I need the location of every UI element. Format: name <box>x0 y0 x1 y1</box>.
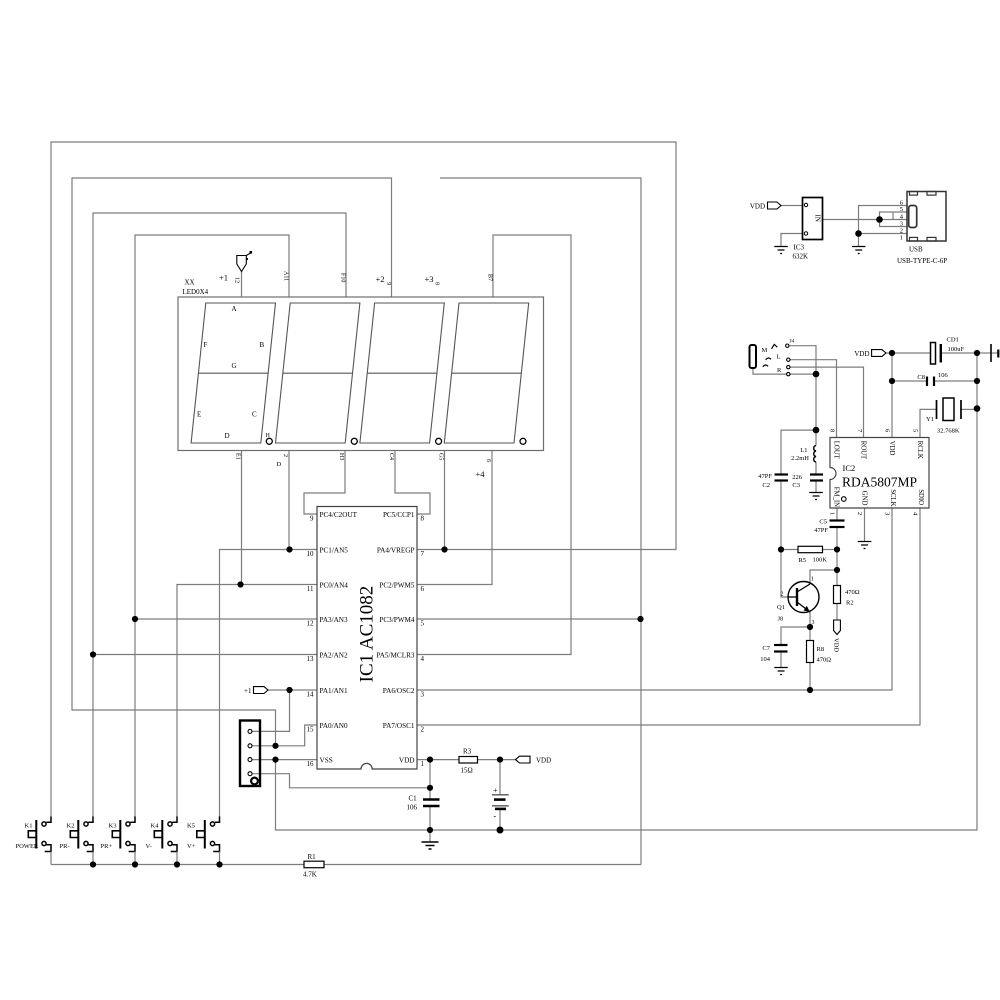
wire display pin2 D <box>288 451 290 550</box>
svg-text:C: C <box>252 411 257 419</box>
svg-text:16: 16 <box>307 760 315 768</box>
flag VDD near IC2 <box>854 350 886 358</box>
svg-text:4: 4 <box>912 512 919 516</box>
wire IC1 pin15 to connector pin2 <box>252 725 317 746</box>
svg-text:7: 7 <box>856 429 863 433</box>
svg-text:100K: 100K <box>813 557 828 564</box>
display digit 1 <box>191 303 275 443</box>
wire IC1 pin6 to display pin6 <box>417 451 492 585</box>
svg-text:+2: +2 <box>376 274 385 284</box>
svg-text:8: 8 <box>434 282 440 285</box>
display digit 3 decimal point <box>436 438 442 444</box>
svg-text:+1: +1 <box>244 687 252 695</box>
ground below C3 <box>809 493 823 500</box>
wire Q1 collector branch <box>810 570 837 620</box>
IC1 pin 5 PC3/PWM4 <box>379 616 424 628</box>
wire VDD node at RDA <box>886 353 892 438</box>
display digit 2 <box>276 303 360 443</box>
svg-text:632K: 632K <box>793 253 809 261</box>
IC2 pin 4 SDIO <box>912 489 924 516</box>
svg-text:VDD: VDD <box>399 757 415 765</box>
svg-text:V+: V+ <box>187 843 196 850</box>
IC1 pin 10 PC1/AN5 <box>307 547 349 559</box>
display top pin 9 +2 <box>376 274 392 285</box>
svg-text:15Ω: 15Ω <box>461 767 473 775</box>
svg-text:VDD: VDD <box>888 441 895 456</box>
svg-text:+3: +3 <box>425 274 434 284</box>
IC1 pin 7 PA4/VREGP <box>377 547 425 559</box>
wire L1 C3 branch <box>815 430 817 492</box>
svg-text:6: 6 <box>485 459 491 462</box>
display bottom pin 3 H <box>338 453 344 460</box>
pushbutton K4 V- <box>146 816 178 864</box>
svg-text:SCLK: SCLK <box>889 489 896 506</box>
ground below C7 <box>774 668 788 675</box>
svg-text:6: 6 <box>884 429 891 433</box>
svg-text:B: B <box>260 341 265 349</box>
resistor R1 <box>303 853 324 879</box>
svg-text:32.768K: 32.768K <box>937 428 960 435</box>
wire battery branch <box>499 760 501 830</box>
connector J1 header <box>240 721 260 787</box>
svg-text:1: 1 <box>900 235 903 242</box>
svg-text:E: E <box>197 411 201 419</box>
capacitor C3 226 <box>792 474 823 489</box>
svg-text:PA3/AN3: PA3/AN3 <box>320 616 348 624</box>
IC1 pin 16 VSS <box>307 757 333 768</box>
IC1 pin 6 PC2/PWM5 <box>379 582 424 594</box>
svg-text:F: F <box>204 341 208 349</box>
display top pin 11 A <box>283 271 289 281</box>
svg-text:5: 5 <box>912 429 919 432</box>
svg-text:IC1 AC1082: IC1 AC1082 <box>357 586 378 683</box>
wire Q1 emitter branch <box>781 612 810 690</box>
svg-text:2: 2 <box>900 228 903 235</box>
wire K2 loop to display pin10 <box>93 213 346 816</box>
capacitor C5 47PF <box>814 519 844 535</box>
display bottom pin 1 E <box>235 453 241 460</box>
svg-text:2: 2 <box>781 592 784 598</box>
wire +1 net IC1 pin14 to connector pin1 <box>252 690 317 731</box>
svg-text:IN: IN <box>814 215 822 222</box>
svg-text:LED0X4: LED0X4 <box>183 288 209 296</box>
wire USB pin4 bracket <box>880 212 908 220</box>
crystal Y1 32.768K <box>926 398 961 435</box>
IC1 pin 12 PA3/AN3 <box>307 616 348 628</box>
svg-text:8: 8 <box>421 515 425 523</box>
svg-text:PC4/C2OUT: PC4/C2OUT <box>320 511 358 519</box>
display top pin 12 +1 flag <box>219 251 252 297</box>
svg-text:PA5/MCLR3: PA5/MCLR3 <box>376 652 414 660</box>
svg-text:2: 2 <box>421 726 425 734</box>
IC1 pin 2 PA7/OSC1 <box>383 722 425 734</box>
pushbutton K5 V+ <box>187 816 220 864</box>
wire K3 loop to display pin11 <box>135 235 289 816</box>
svg-text:V-: V- <box>146 843 152 850</box>
wire display pin4 C to IC1 pin8 <box>395 451 430 515</box>
wire IC1 pin5 to display pin8 loop <box>417 178 641 865</box>
wire C8 row <box>892 380 977 382</box>
resistor R5 100K <box>798 546 827 564</box>
wire IC3 ground <box>781 234 803 247</box>
svg-text:RCLK: RCLK <box>916 441 923 459</box>
flag VDD at IC3 <box>750 202 781 211</box>
svg-text:470Ω: 470Ω <box>817 657 832 664</box>
wire IC1 pin12 row <box>135 618 317 620</box>
svg-text:104: 104 <box>760 656 771 663</box>
svg-text:5: 5 <box>421 620 425 628</box>
svg-text:K2: K2 <box>67 823 75 830</box>
svg-text:PR+: PR+ <box>101 843 113 850</box>
wire display pin1 E <box>241 451 243 585</box>
svg-text:FM_IN: FM_IN <box>833 487 840 507</box>
capacitor C8 106 <box>917 372 948 386</box>
wire USB pins 5-3 bracket <box>880 212 908 227</box>
svg-text:PC3/PWM4: PC3/PWM4 <box>379 616 415 624</box>
wire jack R to ROUT <box>790 367 864 437</box>
svg-text:L: L <box>777 354 781 361</box>
svg-text:1: 1 <box>811 577 814 583</box>
IC1 pin 8 PC5/CCP1 <box>383 511 425 523</box>
svg-text:4: 4 <box>421 655 425 663</box>
display digit 4 <box>444 303 528 443</box>
wire K1 scan loop to IC1 pin7 <box>51 142 676 816</box>
wire PA0 net loop to display pin9 <box>72 178 392 746</box>
inductor L1 2.2mH <box>791 446 816 463</box>
svg-text:2: 2 <box>282 454 288 457</box>
capacitor C7 104 <box>760 645 787 663</box>
svg-text:D: D <box>225 432 230 440</box>
display digit 3 <box>360 303 444 443</box>
display bottom pin 4 C <box>388 453 394 460</box>
IC1 pin 14 PA1/AN1 <box>307 687 348 699</box>
wire button bus to R1 <box>51 864 641 866</box>
svg-text:SDIO: SDIO <box>917 489 924 505</box>
svg-text:47PF: 47PF <box>758 473 772 480</box>
svg-text:GND: GND <box>860 491 867 506</box>
flag VDD below R2 <box>833 620 841 652</box>
svg-text:C5: C5 <box>819 519 827 526</box>
svg-text:47PF: 47PF <box>814 527 828 534</box>
wire VDD flag to IC3 <box>781 205 803 207</box>
svg-text:PA6/OSC2: PA6/OSC2 <box>383 687 415 695</box>
svg-text:A11: A11 <box>283 271 289 281</box>
IC1 pin 13 PA2/AN2 <box>307 652 348 664</box>
svg-text:E1: E1 <box>235 453 241 460</box>
wire C1 branch <box>429 760 431 830</box>
svg-text:+1: +1 <box>219 273 228 283</box>
svg-text:PA7/OSC1: PA7/OSC1 <box>383 722 415 730</box>
IC2 pin 2 GND <box>856 491 867 516</box>
display digit 4 decimal point <box>520 438 526 444</box>
svg-text:VDD: VDD <box>854 350 869 358</box>
svg-text:IC3: IC3 <box>794 244 805 252</box>
svg-text:K5: K5 <box>187 823 195 830</box>
IC2 pin 7 ROUT <box>856 429 866 460</box>
svg-text:Q1: Q1 <box>777 604 785 611</box>
svg-text:12: 12 <box>234 277 240 283</box>
wire display pin3 H to IC1 pin9 <box>304 451 345 515</box>
svg-text:IC2: IC2 <box>843 463 856 473</box>
svg-text:XX: XX <box>185 279 195 287</box>
wire IC1 pin13 row <box>93 654 317 656</box>
wire USB pin6 pin2 ground <box>859 206 908 247</box>
svg-text:106: 106 <box>407 804 418 812</box>
IC2 pin 1 FM_IN <box>829 487 840 516</box>
svg-text:R8: R8 <box>817 646 825 653</box>
transistor Q1 <box>777 577 819 627</box>
battery BT1 <box>492 786 509 821</box>
svg-text:VSS: VSS <box>320 757 333 765</box>
capacitor CD1 100uF <box>931 337 965 365</box>
svg-text:H3: H3 <box>338 453 344 460</box>
capacitor C1 <box>407 795 440 812</box>
resistor R3 <box>459 748 478 775</box>
capacitor C2 47PF <box>758 473 788 489</box>
svg-text:PC1/AN5: PC1/AN5 <box>320 547 349 555</box>
pushbutton K2 PR- <box>60 816 94 864</box>
svg-text:A: A <box>232 305 237 313</box>
svg-text:RDA5807MP: RDA5807MP <box>842 475 917 490</box>
svg-text:R5: R5 <box>799 557 807 564</box>
wire CD1 row <box>892 352 991 354</box>
svg-text:R2: R2 <box>846 600 854 607</box>
IC2 pin 3 SCLK <box>884 489 896 515</box>
svg-text:100uF: 100uF <box>948 346 965 353</box>
wire IC1 pin2 to RDA SDIO <box>417 508 920 725</box>
wire IC1 pin3 to RDA SCLK <box>417 508 892 690</box>
svg-text:5: 5 <box>900 206 903 213</box>
svg-text:470Ω: 470Ω <box>845 589 860 596</box>
display bottom pin 5 G <box>438 453 444 460</box>
wire Y1 to RCLK <box>920 409 977 437</box>
svg-text:J4: J4 <box>790 339 795 345</box>
wire IC1 pin4 to display pin7 loop <box>417 235 571 655</box>
wire K5 to IC1 pin10 <box>220 550 318 817</box>
svg-text:R: R <box>777 367 782 374</box>
svg-text:C1: C1 <box>409 795 418 803</box>
svg-text:F10: F10 <box>340 273 346 282</box>
svg-text:+4: +4 <box>476 469 486 479</box>
display top pin 7 B <box>487 274 493 281</box>
svg-text:3: 3 <box>421 691 425 699</box>
svg-text:PC2/PWM5: PC2/PWM5 <box>379 582 415 590</box>
svg-text:ROUT: ROUT <box>859 441 866 460</box>
LED display LED0X4 outline <box>178 279 544 451</box>
svg-text:PA4/VREGP: PA4/VREGP <box>377 547 415 555</box>
svg-text:LOUT: LOUT <box>833 441 840 460</box>
svg-text:13: 13 <box>307 655 315 663</box>
svg-text:D: D <box>277 461 282 468</box>
audio jack J4 <box>750 339 795 376</box>
capacitor at page edge <box>991 344 998 362</box>
svg-text:VDD: VDD <box>536 757 551 765</box>
wire connector pin4 to VDD node <box>252 774 430 788</box>
wire antenna node to C2 <box>781 430 816 597</box>
IC1 pin 1 VDD <box>399 757 425 768</box>
svg-text:2.2mH: 2.2mH <box>791 455 809 462</box>
svg-text:VDD: VDD <box>833 638 840 652</box>
display digit 2 decimal point <box>351 438 357 444</box>
flag VDD at R3 <box>516 756 552 764</box>
IC1 pin 15 PA0/AN0 <box>307 722 348 734</box>
svg-text:10: 10 <box>307 550 315 558</box>
svg-text:G5: G5 <box>438 453 444 460</box>
svg-text:+: + <box>493 786 498 795</box>
svg-text:C3: C3 <box>792 482 800 489</box>
svg-text:Y1: Y1 <box>926 416 934 423</box>
svg-text:8: 8 <box>829 429 836 432</box>
svg-text:C4: C4 <box>388 453 394 460</box>
svg-text:9: 9 <box>385 282 391 285</box>
display bottom pin 6 +4 <box>476 459 492 479</box>
svg-text:9: 9 <box>310 515 314 523</box>
IC1 pin 4 PA5/MCLR3 <box>376 652 424 664</box>
USB connector USB-TYPE-C-6P <box>897 192 947 266</box>
IC2 pin 8 LOUT <box>829 429 840 460</box>
svg-text:PA0/AN0: PA0/AN0 <box>320 722 348 730</box>
ground below IC2 GND pin <box>858 542 872 549</box>
svg-text:L1: L1 <box>800 447 807 454</box>
svg-text:12: 12 <box>307 620 315 628</box>
svg-text:J8: J8 <box>778 617 783 623</box>
wire RDA GND pin <box>864 508 866 541</box>
display digit 1 segment labels <box>197 305 271 440</box>
wire ground return line <box>276 353 978 830</box>
svg-text:PA2/AN2: PA2/AN2 <box>320 652 348 660</box>
svg-text:PR-: PR- <box>60 843 70 850</box>
wire FM_IN branch <box>836 508 838 570</box>
IC1 pin 9 PC4/C2OUT <box>310 511 358 523</box>
svg-text:PC0/AN4: PC0/AN4 <box>320 582 349 590</box>
svg-text:R1: R1 <box>308 853 317 861</box>
display digit 1 decimal point <box>266 438 272 444</box>
svg-text:C2: C2 <box>762 482 770 489</box>
svg-text:POWER: POWER <box>16 843 39 850</box>
svg-text:15: 15 <box>307 726 315 734</box>
op IC1 AC1082 body <box>317 507 417 770</box>
svg-text:2: 2 <box>856 512 863 515</box>
wire jack L to LOUT <box>790 360 837 438</box>
svg-text:PA1/AN1: PA1/AN1 <box>320 687 348 695</box>
wire VSS row <box>252 759 317 761</box>
svg-text:1: 1 <box>829 512 836 515</box>
pushbutton K3 PR+ <box>101 816 136 864</box>
svg-text:VDD: VDD <box>750 203 765 211</box>
svg-text:C7: C7 <box>762 645 770 652</box>
ground below IC3 <box>774 247 788 254</box>
wire jack M antenna <box>753 346 816 430</box>
svg-text:7: 7 <box>421 550 425 558</box>
svg-text:M: M <box>762 347 768 354</box>
svg-text:-: - <box>494 812 497 821</box>
svg-text:226: 226 <box>792 474 803 481</box>
svg-text:6: 6 <box>421 585 425 593</box>
svg-text:PC5/CCP1: PC5/CCP1 <box>383 511 415 519</box>
svg-text:14: 14 <box>307 691 315 699</box>
resistor R8 470 <box>807 641 832 664</box>
svg-text:3: 3 <box>900 221 903 228</box>
op-amp IC2 RDA5807MP body <box>830 438 929 509</box>
regulator IC3 632K <box>793 198 823 261</box>
wire K4 to IC1 pin11 <box>177 585 317 817</box>
svg-text:K3: K3 <box>109 823 117 830</box>
wire R5 row <box>781 549 837 551</box>
svg-text:K1: K1 <box>25 823 33 830</box>
resistor R2 470 <box>834 586 860 607</box>
svg-text:K4: K4 <box>151 823 160 830</box>
IC2 pin 6 VDD <box>884 429 895 456</box>
svg-text:USB-TYPE-C-6P: USB-TYPE-C-6P <box>897 257 947 265</box>
svg-text:CD1: CD1 <box>947 337 959 344</box>
pushbutton K1 POWER <box>16 816 52 864</box>
wire VDD row IC1 pin1 <box>417 759 516 761</box>
svg-text:106: 106 <box>938 372 949 379</box>
svg-text:R3: R3 <box>463 748 472 756</box>
svg-text:3: 3 <box>884 512 891 515</box>
wire IC3 out to USB CC <box>823 219 880 221</box>
IC1 pin 11 PC0/AN4 <box>307 582 349 594</box>
wire display pin5 G <box>444 451 446 550</box>
ground at USB <box>852 247 866 254</box>
svg-text:11: 11 <box>307 585 314 593</box>
display top pin 10 F <box>340 273 346 282</box>
display top pin 8 +3 <box>425 274 440 285</box>
svg-text:B7: B7 <box>487 274 493 281</box>
svg-text:C8: C8 <box>917 374 925 381</box>
ground below C1 <box>422 830 439 849</box>
svg-text:G: G <box>232 362 237 370</box>
svg-text:1: 1 <box>421 760 425 768</box>
display bottom pin 2 D <box>277 454 289 468</box>
IC1 pin 3 PA6/OSC2 <box>383 687 425 699</box>
svg-text:4.7K: 4.7K <box>303 871 317 879</box>
flag +1 at IC1 pin14 <box>244 687 268 695</box>
IC2 pin 5 RCLK <box>912 429 923 459</box>
svg-text:USB: USB <box>909 246 923 254</box>
